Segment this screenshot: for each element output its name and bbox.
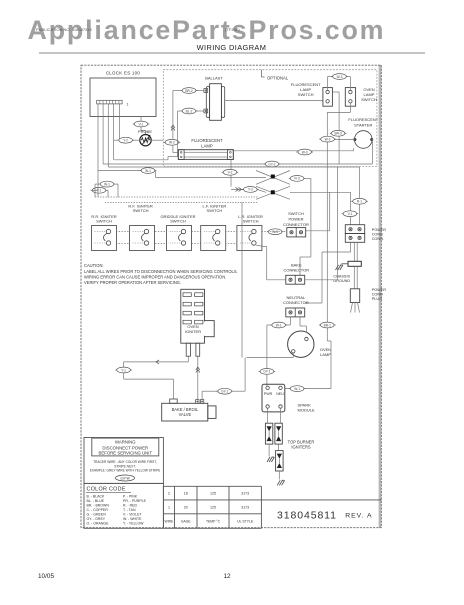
svg-text:W-3: W-3 <box>302 150 308 154</box>
svg-text:WIRING DIAGRAM: WIRING DIAGRAM <box>197 43 267 52</box>
svg-text:V-1: V-1 <box>348 212 353 216</box>
svg-text:CLOCK ES 100: CLOCK ES 100 <box>106 71 141 76</box>
svg-text:CORD: CORD <box>372 233 383 237</box>
svg-text:3173: 3173 <box>241 505 249 509</box>
svg-text:SWITCH: SWITCH <box>243 219 259 224</box>
svg-text:1: 1 <box>168 505 170 509</box>
svg-text:CAUTION:: CAUTION: <box>84 263 104 268</box>
svg-text:W-2: W-2 <box>169 141 175 145</box>
svg-text:Y-2: Y-2 <box>123 139 128 143</box>
svg-text:LAMP: LAMP <box>201 144 213 149</box>
svg-text:G. - GREEN: G. - GREEN <box>87 512 107 516</box>
svg-text:CONNECTOR: CONNECTOR <box>283 267 309 272</box>
svg-text:GAGE: GAGE <box>181 520 192 524</box>
svg-text:Y-3: Y-3 <box>248 188 253 192</box>
svg-text:W-3: W-3 <box>337 75 343 79</box>
svg-text:20: 20 <box>184 505 188 509</box>
svg-text:CONNECTOR: CONNECTOR <box>283 222 309 227</box>
svg-text:GY. - GREY: GY. - GREY <box>87 517 106 521</box>
svg-text:PWR: PWR <box>264 392 273 396</box>
svg-text:REV. A: REV. A <box>345 513 372 520</box>
svg-text:VERIFY PROPER OPERATION AFTER: VERIFY PROPER OPERATION AFTER SERVICING. <box>84 280 181 285</box>
svg-text:IGNITER: IGNITER <box>185 329 201 334</box>
svg-text:CONNECTOR: CONNECTOR <box>283 300 309 305</box>
svg-text:GY-1: GY-1 <box>263 370 270 374</box>
svg-text:PLUG: PLUG <box>372 297 382 301</box>
svg-text:12: 12 <box>223 573 231 580</box>
svg-text:FLUORESCENT: FLUORESCENT <box>348 117 378 122</box>
svg-text:EXAMPLE: GREY WIRE WITH YELLOW: EXAMPLE: GREY WIRE WITH YELLOW STRIPE <box>90 469 161 473</box>
svg-text:PR. - PURPLE: PR. - PURPLE <box>123 499 147 503</box>
svg-text:POWER: POWER <box>372 288 387 292</box>
svg-text:T. - TAN: T. - TAN <box>123 508 136 512</box>
svg-text:Y-1: Y-1 <box>121 368 126 372</box>
svg-text:18: 18 <box>184 492 188 496</box>
svg-text:POWER: POWER <box>288 217 303 222</box>
svg-text:2: 2 <box>168 492 170 496</box>
svg-text:LAMP: LAMP <box>320 352 331 357</box>
svg-text:(TF30E): (TF30E) <box>225 27 240 32</box>
svg-text:1: 1 <box>127 103 129 107</box>
svg-text:SWITCH: SWITCH <box>96 219 112 224</box>
svg-text:V-1: V-1 <box>139 122 144 126</box>
svg-text:SWITCH: SWITCH <box>207 208 223 213</box>
svg-text:V-2: V-2 <box>228 171 233 175</box>
svg-text:3173: 3173 <box>241 492 249 496</box>
svg-text:SWITCH: SWITCH <box>288 211 304 216</box>
svg-text:TEMP °C: TEMP °C <box>206 520 221 524</box>
svg-text:C. - COPPER: C. - COPPER <box>87 508 109 512</box>
svg-text:CHASSIS: CHASSIS <box>333 275 350 279</box>
svg-text:PROBE: PROBE <box>138 129 152 134</box>
svg-text:W-1: W-1 <box>145 169 151 173</box>
svg-text:POWER: POWER <box>372 228 387 232</box>
svg-text:G/Y-W: G/Y-W <box>120 476 129 480</box>
svg-text:BL. - BLUE: BL. - BLUE <box>87 499 105 503</box>
svg-text:WIRE: WIRE <box>165 520 175 524</box>
svg-text:GY-1: GY-1 <box>221 390 228 394</box>
svg-text:IGNITERS: IGNITERS <box>291 445 311 450</box>
svg-text:COLOR CODE: COLOR CODE <box>87 487 126 493</box>
svg-text:Y. - YELLOW: Y. - YELLOW <box>123 521 144 525</box>
svg-text:BALLAST: BALLAST <box>205 76 223 81</box>
svg-text:FLUORESCENT: FLUORESCENT <box>191 138 223 143</box>
svg-text:W-5: W-5 <box>272 230 278 234</box>
svg-text:W-3: W-3 <box>325 137 331 141</box>
svg-text:LABEL ALL WIRES PRIOR TO DISCO: LABEL ALL WIRES PRIOR TO DISCONNECTION W… <box>84 269 238 274</box>
svg-text:CONN.: CONN. <box>372 237 384 241</box>
svg-text:NEU: NEU <box>276 392 284 396</box>
svg-text:BR-3: BR-3 <box>334 132 341 136</box>
svg-text:318045811: 318045811 <box>277 510 337 522</box>
svg-text:B. - BLACK: B. - BLACK <box>87 494 106 498</box>
svg-text:O. - ORANGE: O. - ORANGE <box>87 521 110 525</box>
svg-text:V. - VIOLET: V. - VIOLET <box>123 512 142 516</box>
svg-text:W-1: W-1 <box>104 182 110 186</box>
svg-text:MODULE: MODULE <box>298 407 315 412</box>
svg-text:GY-2: GY-2 <box>268 162 275 166</box>
svg-text:W-1: W-1 <box>276 323 282 327</box>
svg-text:VALVE: VALVE <box>179 412 192 417</box>
svg-text:125: 125 <box>210 492 216 496</box>
svg-text:W. - WHITE: W. - WHITE <box>123 517 142 521</box>
svg-text:PUBLICATION NO. 318047313: PUBLICATION NO. 318047313 <box>36 27 93 32</box>
svg-text:R-3: R-3 <box>295 177 300 181</box>
svg-text:OPTIONAL: OPTIONAL <box>267 75 289 80</box>
svg-text:BEFORE SERVICING UNIT: BEFORE SERVICING UNIT <box>98 450 152 455</box>
svg-text:WARNING: WARNING <box>115 440 136 445</box>
svg-text:W-1: W-1 <box>294 387 300 391</box>
svg-text:SWITCH: SWITCH <box>170 219 186 224</box>
svg-text:WIRING ERROR CAN CAUSE IMPROPE: WIRING ERROR CAN CAUSE IMPROPER AND DANG… <box>84 275 226 280</box>
svg-text:BR. - BROWN: BR. - BROWN <box>87 503 110 507</box>
svg-text:BR-1: BR-1 <box>324 323 331 327</box>
svg-text:BR-2: BR-2 <box>185 89 192 93</box>
svg-text:10/05: 10/05 <box>38 573 54 580</box>
svg-text:R. - RED: R. - RED <box>123 503 137 507</box>
svg-text:R-1: R-1 <box>357 200 362 204</box>
svg-text:UL STYLE: UL STYLE <box>237 520 254 524</box>
svg-text:125: 125 <box>210 505 216 509</box>
svg-text:STARTER: STARTER <box>354 123 372 128</box>
svg-text:P. - PINK: P. - PINK <box>123 494 138 498</box>
svg-text:SWITCH: SWITCH <box>133 208 149 213</box>
svg-text:SWITCH: SWITCH <box>298 92 314 97</box>
svg-text:CORD: CORD <box>372 293 383 297</box>
svg-text:SWITCH: SWITCH <box>361 97 377 102</box>
svg-text:BL-2: BL-2 <box>186 109 193 113</box>
